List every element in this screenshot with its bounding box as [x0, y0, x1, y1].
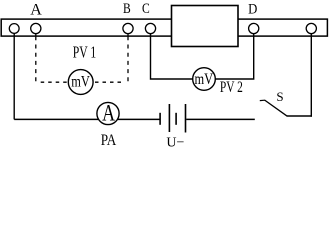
wire: bottom rail left (to ammeter, to battery) [14, 118, 160, 120]
wire: terminal 1 down to bottom rail [13, 33, 15, 119]
wire: switch to right terminal vertical [287, 115, 312, 117]
wire: dashed lead PV1 from terminal B [127, 33, 129, 36]
ammeter PA [97, 102, 119, 124]
svg-text:A: A [30, 1, 42, 18]
svg-text:PA: PA [101, 132, 117, 149]
voltmeter PV2 [193, 68, 216, 91]
wire: PV2 left lead from terminal C [151, 33, 193, 79]
svg-text:PV 1: PV 1 [73, 43, 97, 62]
svg-text:mV: mV [71, 73, 90, 91]
bus bar [1, 19, 327, 36]
terminal node C [145, 23, 155, 33]
wire: dashed lead PV1 from terminal 2 [35, 33, 37, 36]
terminal node B [123, 23, 133, 33]
svg-text:D: D [248, 2, 257, 18]
voltmeter PV1 [68, 70, 93, 95]
terminal 1 [9, 24, 19, 34]
svg-text:PV 2: PV 2 [220, 79, 243, 96]
wire: dashed horizontal to voltmeter PV1 [41, 81, 69, 83]
component box [172, 6, 239, 47]
battery U- plate short 2 [175, 113, 177, 125]
battery U- plate tall 1 [168, 104, 170, 132]
svg-text:B: B [123, 0, 131, 16]
svg-text:U−: U− [166, 136, 184, 150]
switch S blade [265, 100, 288, 116]
terminal node D [249, 23, 259, 33]
terminal right [306, 23, 316, 33]
svg-text:C: C [142, 0, 150, 16]
svg-text:A: A [102, 102, 115, 127]
wire: battery to switch contact [186, 118, 255, 120]
svg-text:S: S [276, 89, 283, 104]
wire: PV2 right lead from terminal D [215, 33, 254, 79]
battery U- plate short 1 [159, 113, 161, 125]
svg-text:mV: mV [195, 71, 214, 89]
terminal 2 (node A) [31, 23, 41, 33]
battery U- plate tall 2 [185, 104, 187, 133]
